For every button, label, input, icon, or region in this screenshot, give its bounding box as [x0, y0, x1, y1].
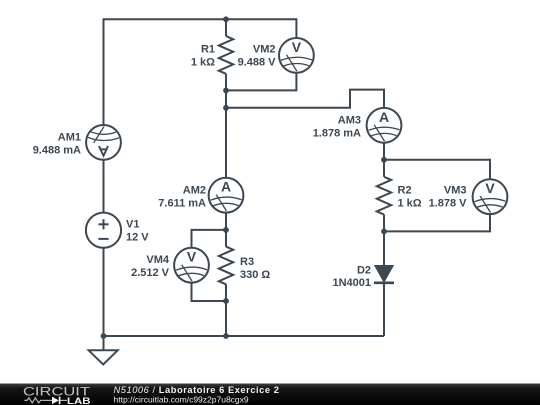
- node junction rail left: [101, 333, 107, 339]
- node junction rail middle: [223, 333, 229, 339]
- wire left loop: V1/AM1 branch up across the top to VM2: [104, 19, 297, 336]
- label V1 value: [126, 218, 149, 243]
- node junction AM3 branch: [223, 105, 229, 111]
- svg-text:1.878 V: 1.878 V: [429, 198, 468, 210]
- svg-text:2.512 V: 2.512 V: [131, 267, 170, 279]
- node junction R3 bottom: [223, 298, 229, 304]
- wire node to VM3 loop: [384, 160, 490, 197]
- footer logo diode symbol: [52, 397, 67, 405]
- svg-text:V: V: [485, 180, 495, 196]
- svg-text:V: V: [187, 249, 197, 265]
- node junction R2 bottom: [381, 229, 387, 235]
- voltmeter VM4: [174, 248, 209, 283]
- svg-text:D2: D2: [357, 265, 371, 277]
- node junction top R1: [223, 16, 229, 22]
- svg-text:1.878 mA: 1.878 mA: [313, 128, 361, 140]
- svg-text:LAB: LAB: [67, 396, 91, 405]
- ammeter AM2: [209, 178, 244, 213]
- node junction AM2 bottom: [223, 227, 229, 233]
- wire VM3 bottom back to R2 bottom node: [384, 197, 490, 232]
- voltage source V1: [86, 213, 121, 248]
- svg-text:12 V: 12 V: [126, 231, 149, 243]
- svg-text:330 Ω: 330 Ω: [240, 269, 270, 281]
- svg-text:9.488 V: 9.488 V: [238, 56, 277, 68]
- voltmeter VM3: [473, 179, 508, 214]
- svg-text:AM1: AM1: [58, 132, 81, 144]
- label D2 value: [332, 265, 371, 289]
- wire VM2 bottom to middle node: [226, 55, 297, 90]
- svg-text:R3: R3: [240, 256, 254, 268]
- footer logo LAB: [67, 396, 91, 405]
- svg-text:V: V: [292, 39, 302, 55]
- wire D2 branch top lead: [383, 231, 385, 266]
- svg-text:VM3: VM3: [444, 185, 467, 197]
- svg-text:A: A: [379, 109, 389, 125]
- footer title text: [114, 385, 280, 395]
- resistor R3: [219, 230, 233, 301]
- svg-text:http://circuitlab.com/c99z2p7u: http://circuitlab.com/c99z2p7u8cgx9: [114, 394, 249, 404]
- label R1 value: [191, 44, 215, 69]
- wire R3 bottom to rail: [225, 301, 227, 336]
- wire bottom rail: [104, 335, 385, 337]
- wire middle vertical through AM2: [225, 90, 227, 230]
- wire D2 bottom lead to rail: [383, 283, 385, 336]
- footer logo CIRCUIT: [23, 386, 90, 398]
- svg-text:V1: V1: [126, 218, 139, 230]
- node junction R2 top: [381, 157, 387, 163]
- resistor R2: [377, 160, 391, 232]
- node junction VM2 bottom: [223, 88, 229, 94]
- svg-text:AM3: AM3: [338, 115, 361, 127]
- label AM3 value: [313, 115, 361, 140]
- svg-text:7.611 mA: 7.611 mA: [158, 198, 206, 210]
- label VM3 value: [429, 185, 468, 210]
- label VM2 value: [238, 44, 277, 69]
- diode D2: [374, 266, 394, 283]
- ammeter AM1 (flipped vertically): [86, 125, 121, 160]
- svg-text:R1: R1: [201, 44, 215, 56]
- svg-text:1 kΩ: 1 kΩ: [191, 56, 215, 68]
- svg-text:R2: R2: [398, 185, 412, 197]
- wire VM4 bottom loop: [192, 265, 227, 301]
- svg-text:1N4001: 1N4001: [332, 277, 371, 289]
- svg-text:1 kΩ: 1 kΩ: [398, 198, 422, 210]
- wire step to AM3: [226, 90, 384, 126]
- svg-text:AM2: AM2: [183, 185, 206, 197]
- wire VM4 loop top: [192, 230, 227, 265]
- label R2 value: [398, 185, 422, 210]
- label R3 value: [240, 256, 270, 281]
- footer logo resistor squiggle: [24, 398, 52, 403]
- svg-text:VM4: VM4: [146, 254, 170, 266]
- svg-text:VM2: VM2: [253, 44, 276, 56]
- svg-text:A: A: [221, 179, 231, 195]
- footer bar: [0, 384, 540, 405]
- resistor R1: [219, 19, 233, 90]
- label AM1 value: [33, 132, 81, 157]
- ammeter AM3: [367, 108, 402, 143]
- footer url text: [114, 394, 249, 404]
- wire AM3 bottom to node: [383, 125, 385, 160]
- svg-text:9.488 mA: 9.488 mA: [33, 145, 81, 157]
- ground: [89, 336, 118, 365]
- label VM4 value: [131, 254, 170, 279]
- voltmeter VM2: [279, 38, 314, 73]
- label AM2 value: [158, 185, 206, 210]
- svg-text:N51006 / Laboratoire 6 Exercic: N51006 / Laboratoire 6 Exercice 2: [114, 385, 280, 395]
